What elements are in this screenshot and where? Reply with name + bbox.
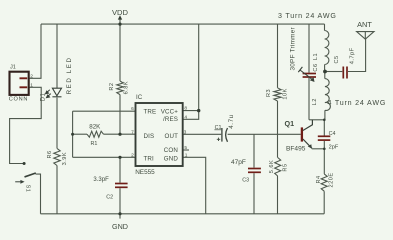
svg-text:J1: J1 [10, 64, 16, 70]
svg-text:4 Turn 24 AWG: 4 Turn 24 AWG [328, 99, 387, 107]
svg-text:L2: L2 [312, 98, 318, 105]
svg-text:C4: C4 [329, 131, 336, 137]
svg-text:R3: R3 [266, 89, 272, 97]
svg-text:IC: IC [136, 94, 143, 101]
svg-text:NE555: NE555 [135, 169, 155, 176]
svg-text:C6: C6 [313, 63, 319, 71]
svg-text:4.7u: 4.7u [228, 114, 235, 128]
svg-text:GND: GND [164, 156, 179, 163]
svg-text:RED LED: RED LED [66, 56, 73, 94]
svg-text:R1: R1 [91, 141, 98, 147]
svg-text:ANT: ANT [357, 20, 372, 29]
svg-text:6: 6 [131, 106, 134, 112]
svg-text:47pF: 47pF [231, 159, 246, 166]
svg-text:1: 1 [185, 152, 188, 158]
svg-text:82K: 82K [89, 124, 101, 131]
svg-text:R5: R5 [283, 163, 289, 171]
svg-text:Q1: Q1 [285, 119, 295, 128]
svg-text:/RES: /RES [163, 116, 178, 123]
svg-text:L1: L1 [313, 53, 319, 60]
svg-text:220E: 220E [329, 172, 335, 187]
svg-text:3 Turn 24 AWG: 3 Turn 24 AWG [278, 12, 337, 20]
svg-text:5.6K: 5.6K [269, 160, 275, 174]
svg-text:1: 1 [30, 82, 33, 88]
svg-text:C3: C3 [242, 178, 249, 184]
svg-text:C5: C5 [334, 55, 340, 63]
svg-text:4: 4 [184, 114, 187, 120]
svg-text:30PF Trimmer: 30PF Trimmer [290, 26, 297, 70]
svg-text:S1: S1 [24, 185, 30, 193]
svg-text:VDD: VDD [112, 8, 129, 17]
svg-text:CONN: CONN [9, 96, 28, 102]
svg-text:10K: 10K [282, 88, 288, 99]
svg-text:R2: R2 [109, 83, 115, 91]
svg-text:8: 8 [184, 106, 187, 112]
svg-text:4.7pF: 4.7pF [350, 47, 356, 64]
svg-text:VCC+: VCC+ [161, 109, 179, 116]
svg-text:CON: CON [164, 147, 178, 154]
svg-text:C2: C2 [106, 194, 113, 200]
svg-text:2: 2 [30, 73, 33, 79]
svg-text:R6: R6 [47, 150, 53, 158]
svg-text:DIS: DIS [144, 133, 155, 140]
svg-text:3.9K: 3.9K [62, 152, 68, 166]
svg-text:TRE: TRE [144, 109, 157, 116]
svg-text:7: 7 [131, 130, 134, 136]
svg-text:5: 5 [184, 145, 187, 151]
svg-text:OUT: OUT [164, 133, 178, 140]
svg-text:TRI: TRI [144, 156, 155, 163]
svg-text:2: 2 [131, 153, 134, 159]
svg-text:6.8K: 6.8K [124, 81, 130, 95]
svg-text:R4: R4 [316, 175, 322, 183]
svg-text:GND: GND [112, 222, 128, 231]
svg-text:BF495: BF495 [286, 145, 306, 152]
svg-text:3: 3 [184, 129, 187, 135]
svg-text:2pF: 2pF [329, 145, 339, 151]
svg-text:3.3pF: 3.3pF [93, 177, 109, 183]
svg-text:D1: D1 [41, 93, 47, 102]
